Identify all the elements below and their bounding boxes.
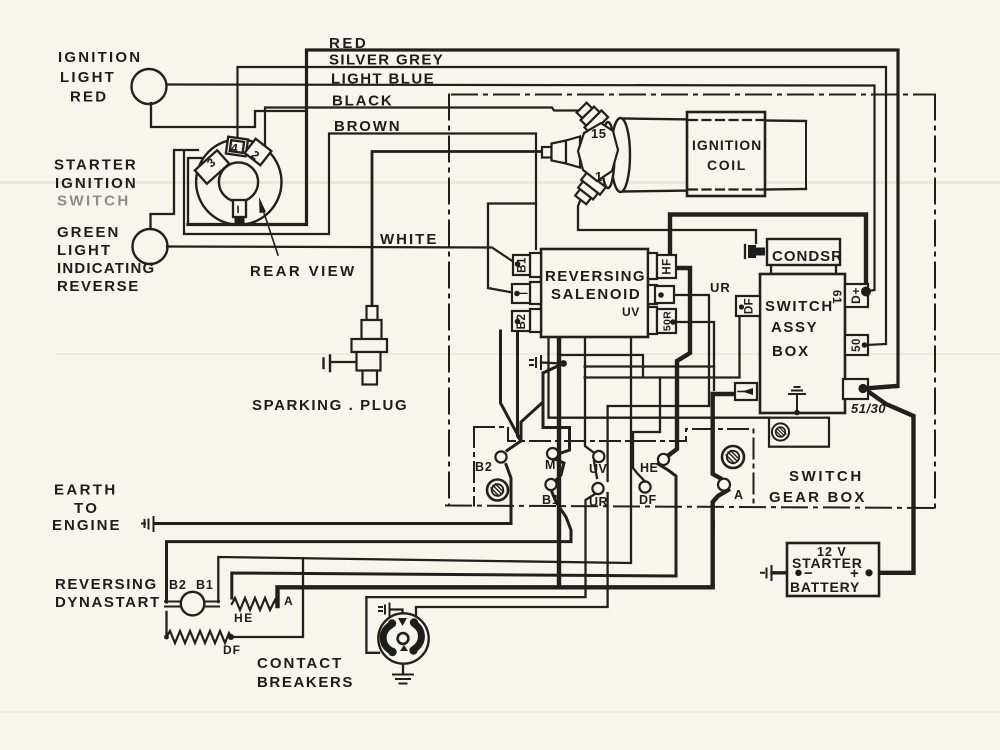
wire contact breaker left box <box>366 597 379 653</box>
svg-text:LIGHT: LIGHT <box>60 69 116 86</box>
svg-text:BLACK: BLACK <box>332 93 394 110</box>
node D+ junction dot <box>861 287 871 297</box>
wire ground dot diagonal to M B2 risers <box>543 364 570 454</box>
gear terminal B2 <box>495 451 506 462</box>
svg-text:STARTER: STARTER <box>54 157 138 174</box>
solenoid right step HF <box>648 253 676 279</box>
switch terminal 3 <box>195 150 229 183</box>
sparking plug earth bar <box>324 356 331 372</box>
svg-text:B1: B1 <box>542 493 560 507</box>
svg-text:RED: RED <box>70 89 108 106</box>
svg-text:DYNASTART: DYNASTART <box>55 594 161 611</box>
condenser connector <box>745 245 765 258</box>
svg-text:SPARKING . PLUG: SPARKING . PLUG <box>252 397 408 414</box>
svg-text:HF: HF <box>662 258 674 274</box>
gear terminal A <box>718 479 730 491</box>
svg-text:−: − <box>804 565 813 582</box>
svg-text:50R: 50R <box>662 311 674 331</box>
svg-text:DF: DF <box>223 643 241 657</box>
wire LIGHT BLUE: red lamp to D+ terminal <box>167 85 875 292</box>
svg-text:COIL: COIL <box>707 157 747 173</box>
svg-text:REVERSING: REVERSING <box>545 268 646 285</box>
reversing dynastart armature <box>181 592 205 616</box>
svg-text:TO: TO <box>74 500 99 517</box>
wire solenoid UR terminal to UR gear terminal and contact breaker right <box>416 295 709 619</box>
svg-text:CONTACT: CONTACT <box>257 655 343 672</box>
wire DF left to dynastart riser <box>165 612 167 637</box>
svg-text:CONDSR: CONDSR <box>772 248 843 265</box>
wire SILVER GREY: switch term4 up and to 50 terminal <box>238 67 887 345</box>
screw box below switch assy <box>769 418 829 447</box>
wire solenoid plus loop <box>488 204 536 294</box>
svg-text:ENGINE: ENGINE <box>52 517 122 534</box>
svg-text:WHITE: WHITE <box>380 231 438 248</box>
svg-text:+: + <box>850 565 859 582</box>
wire M to B1 gear terminals to dynastart B2 <box>167 460 572 603</box>
svg-text:REAR VIEW: REAR VIEW <box>250 263 357 280</box>
wire DF assy feed <box>560 310 740 378</box>
node battery minus dot <box>795 570 801 576</box>
lamp green light reverse <box>133 229 168 264</box>
scan artifact light lines <box>0 181 1000 184</box>
solenoid right step 50R <box>648 307 676 334</box>
wire BLACK: switch term2 to distributor terminal 15 <box>265 108 584 148</box>
wire contact breaker bottom to earth <box>402 664 404 675</box>
wire solenoid UV column to gear terminals <box>366 337 597 597</box>
svg-text:51/30: 51/30 <box>851 401 886 416</box>
svg-text:B2: B2 <box>516 314 528 330</box>
svg-text:REVERSING: REVERSING <box>55 576 158 593</box>
wire green lamp to switch term3 <box>151 150 199 229</box>
wire solenoid bottom to screw box <box>549 337 770 418</box>
svg-text:LIGHT BLUE: LIGHT BLUE <box>331 71 435 88</box>
dynastart right brush link <box>204 602 219 607</box>
svg-text:SALENOID: SALENOID <box>551 286 641 303</box>
svg-text:BOX: BOX <box>772 343 810 360</box>
battery box <box>787 543 879 596</box>
distributor body <box>542 99 618 207</box>
node solenoid 50R dot <box>670 319 676 325</box>
svg-text:BROWN: BROWN <box>334 118 401 135</box>
switch terminal 1 <box>233 200 246 225</box>
starter ignition switch body <box>196 139 281 224</box>
svg-text:UV: UV <box>622 305 640 319</box>
svg-text:RED: RED <box>329 35 368 52</box>
wire battery plus to 51/30 <box>866 390 914 573</box>
svg-text:B2: B2 <box>475 460 493 474</box>
distributor terminal 1 stack <box>571 172 606 207</box>
resistor HE winding <box>232 598 278 610</box>
svg-text:61: 61 <box>830 290 844 304</box>
svg-text:D+: D+ <box>849 287 863 304</box>
ground symbol inside switch assy <box>789 387 805 412</box>
wire RED: ignition switch term1 to battery 51/30 <box>188 50 898 389</box>
wire solenoid 50R to plug connector <box>676 322 714 390</box>
wire DF gear terminal stub <box>633 378 660 482</box>
node solenoid B2 dot <box>515 319 521 325</box>
ignition coil body <box>624 119 806 192</box>
condenser to switch assy strip <box>771 265 836 274</box>
gear screw below B2 <box>487 480 508 501</box>
svg-text:IGNITION: IGNITION <box>692 137 762 153</box>
dynastart left brush link <box>165 602 181 607</box>
solenoid left step B1 <box>513 253 541 277</box>
svg-text:EARTH: EARTH <box>54 482 118 499</box>
svg-text:DF: DF <box>744 298 756 314</box>
svg-text:UR: UR <box>710 280 731 295</box>
reversing solenoid box <box>541 249 648 337</box>
node 50 terminal dot <box>862 342 868 348</box>
switch assy 50 terminal <box>845 335 868 355</box>
sparking plug <box>352 306 388 385</box>
switch assy D+ terminal <box>845 284 868 307</box>
gear screw near A <box>722 446 744 468</box>
switch terminal 4 <box>226 137 248 157</box>
solenoid right mid terminal <box>648 285 674 304</box>
wire contact breaker top earth link <box>390 610 403 620</box>
wire WHITE: green lamp to solenoid B1 <box>167 247 516 264</box>
svg-text:B2: B2 <box>169 578 187 592</box>
svg-text:INDICATING: INDICATING <box>57 260 155 277</box>
ignition coil end cap <box>602 118 631 192</box>
svg-text:ASSY: ASSY <box>771 319 818 336</box>
svg-text:HE: HE <box>640 461 658 475</box>
switch gear box outer dash-dot border <box>446 95 935 509</box>
wire battery minus to earth <box>772 571 798 574</box>
wire sparking plug earth <box>331 361 357 363</box>
earth to engine symbol <box>142 517 154 531</box>
gear terminal M <box>547 448 558 459</box>
svg-text:REVERSE: REVERSE <box>57 278 140 295</box>
svg-text:LIGHT: LIGHT <box>57 242 112 259</box>
gear terminal HE <box>658 454 669 465</box>
contact breaker bottom earth <box>393 675 413 684</box>
node 51/30 dot <box>858 384 867 393</box>
wire starter bus: A point to plug connector riser <box>278 523 713 606</box>
solenoid ground bar <box>530 356 541 369</box>
distributor left terminal stack <box>542 147 552 158</box>
contact breaker points <box>383 624 421 651</box>
switch assy 51/30 terminal <box>843 379 868 399</box>
gear terminal DF <box>639 481 650 492</box>
lamp ignition light red <box>132 69 167 104</box>
solenoid left step B2 <box>512 309 541 332</box>
wire earth bus to gearbox B2 <box>155 328 544 524</box>
condenser CONDSR box <box>767 239 840 265</box>
svg-text:GEAR BOX: GEAR BOX <box>769 489 867 506</box>
svg-text:1: 1 <box>595 169 602 184</box>
resistor DF winding <box>167 631 232 643</box>
node switch assy bottom dot <box>794 410 800 416</box>
wire HF thick down to HE gear terminal <box>669 268 690 455</box>
plug connector arrow box <box>735 383 757 400</box>
svg-text:M: M <box>545 458 555 472</box>
switch assy box <box>760 274 845 413</box>
screw in box <box>772 423 789 440</box>
contact breaker earth tick <box>379 604 390 617</box>
node DF left end <box>164 635 169 640</box>
solenoid left terminal plus <box>512 282 541 304</box>
contact breaker circle <box>378 613 428 663</box>
wire mid horizontal to plug connector <box>585 365 714 367</box>
svg-text:SWITCH: SWITCH <box>57 193 131 210</box>
wire distributor term1 to condenser <box>578 201 756 243</box>
svg-text:15: 15 <box>591 126 606 141</box>
node solenoid ground dot <box>560 360 567 367</box>
node solenoid B1 dot <box>515 261 521 267</box>
wire DF field riser <box>232 558 304 637</box>
wire dynastart B1 bus to solenoid right drop <box>218 338 631 602</box>
svg-text:A: A <box>284 594 293 608</box>
wire solenoid ground bar to dot <box>541 363 563 364</box>
gear terminal UV <box>593 451 604 462</box>
svg-text:HE: HE <box>234 611 254 625</box>
wire solenoid thick down to starter bus <box>557 337 561 587</box>
wire distributor left terminal to sparking plug <box>372 152 542 307</box>
wire HF thick up to D+ <box>670 215 866 289</box>
wire red lamp to RED riser <box>151 103 307 127</box>
rear view arrow <box>263 210 278 255</box>
gear box inner dash-dot frame <box>474 427 754 507</box>
svg-text:IGNITION: IGNITION <box>55 175 138 192</box>
contact breaker cam <box>398 633 409 644</box>
svg-text:—: — <box>515 285 528 300</box>
svg-text:UV: UV <box>589 462 608 476</box>
wire switch term3 inner to thick bottom <box>188 158 203 225</box>
svg-text:B1: B1 <box>517 257 529 273</box>
wire 51/30 right loop up <box>864 386 897 389</box>
switch terminal 2 <box>245 139 272 165</box>
gear terminal UR <box>592 483 603 494</box>
node solenoid mid dot <box>658 292 664 298</box>
svg-text:SILVER GREY: SILVER GREY <box>329 52 444 69</box>
svg-text:IGNITION: IGNITION <box>58 49 142 66</box>
svg-text:UR: UR <box>589 495 608 509</box>
node solenoid plus dot <box>514 291 520 297</box>
distributor terminal 15 stack <box>573 99 608 134</box>
svg-text:I: I <box>237 204 240 216</box>
wire BROWN: switch outer loop to solenoid top <box>184 134 536 250</box>
wire plug connector thick to A gear terminal <box>713 394 735 528</box>
node battery plus dot <box>865 569 872 576</box>
battery earth symbol <box>761 566 772 580</box>
distributor cap <box>578 123 618 181</box>
ignition coil label box <box>687 112 765 196</box>
svg-text:A: A <box>734 488 743 502</box>
svg-text:B1: B1 <box>196 578 214 592</box>
svg-text:SWITCH: SWITCH <box>789 468 864 485</box>
wire HE gear terminal down to heater bus <box>232 464 676 598</box>
node DF right end <box>228 634 234 640</box>
svg-text:GREEN: GREEN <box>57 224 120 241</box>
svg-text:SWITCH: SWITCH <box>765 298 834 315</box>
svg-text:50: 50 <box>851 338 863 352</box>
gear terminal B1 <box>545 479 556 490</box>
svg-text:BREAKERS: BREAKERS <box>257 674 354 691</box>
node DF assy dot <box>739 304 744 309</box>
switch assy DF terminal <box>736 296 760 316</box>
svg-text:DF: DF <box>639 493 657 507</box>
